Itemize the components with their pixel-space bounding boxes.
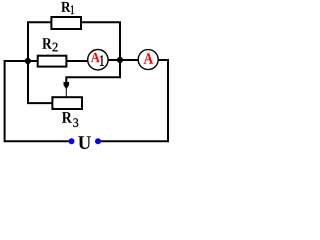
resistor R1 [51, 17, 81, 29]
label R1 subscript 1 [71, 5, 74, 14]
ammeter A circle [138, 50, 158, 70]
label R2 letter R [42, 38, 52, 49]
rheostat R3 [52, 97, 82, 109]
label R3 letter R [62, 112, 72, 123]
wiper thin lead into R3 body [65, 88, 67, 97]
ammeter A1 circle [88, 50, 108, 70]
source U terminal left (blue) [69, 138, 75, 144]
wire R3 wiper: from right junction down and left to arrow stem [66, 60, 120, 83]
source U terminal right (blue) [95, 138, 101, 144]
node right junction [117, 57, 123, 63]
wiper arrowhead [63, 82, 69, 89]
resistor R2 [38, 56, 67, 67]
wire outer loop: left side and bottom-left to battery terminal [5, 61, 69, 141]
node left junction [25, 58, 31, 64]
label R3 subscript 3 [73, 118, 78, 127]
label R1 letter R [61, 2, 70, 12]
ammeter A1 letter A [91, 53, 100, 62]
wire bottom-right from battery terminal and right side up to ammeter A [98, 60, 168, 141]
label U [78, 136, 91, 149]
wire R1 branch: up from left junction, across top to R1 [28, 22, 51, 61]
ammeter A1 subscript 1 [100, 55, 104, 65]
ammeter A letter A [144, 53, 153, 63]
wire R3 branch: down from left junction, right to R3 left terminal [28, 61, 52, 103]
wire middle row through R2 and ammeters [28, 60, 168, 61]
label R2 subscript 2 [53, 43, 58, 52]
wire from R1 right side to top-right corner, down to right junction [81, 22, 120, 60]
